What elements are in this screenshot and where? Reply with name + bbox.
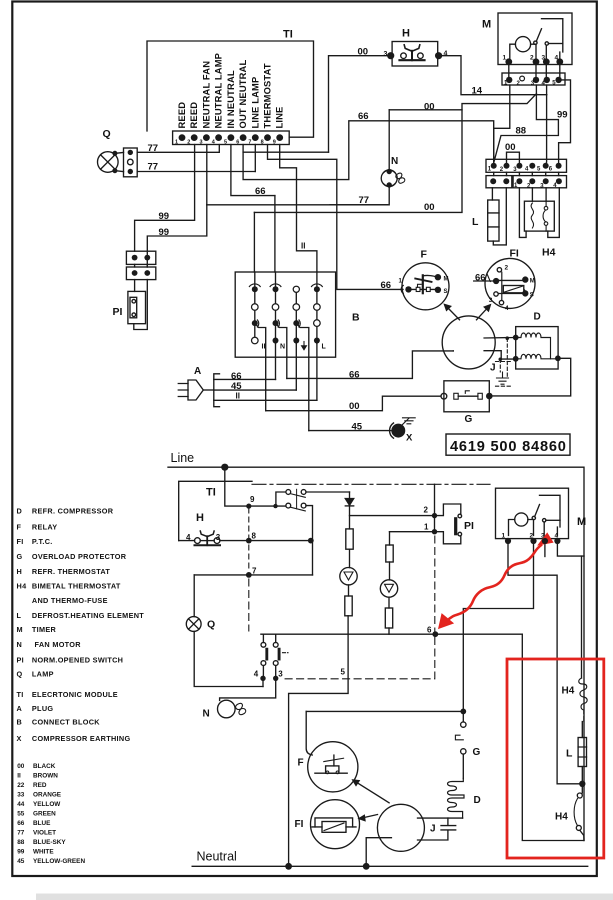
svg-text:66: 66 bbox=[17, 820, 25, 827]
svg-text:B: B bbox=[17, 718, 23, 727]
svg-text:33: 33 bbox=[17, 792, 25, 799]
svg-text:22: 22 bbox=[17, 782, 25, 789]
svg-text:N: N bbox=[17, 640, 23, 649]
svg-text:NORM.OPENED SWITCH: NORM.OPENED SWITCH bbox=[32, 656, 123, 665]
svg-text:N: N bbox=[391, 156, 398, 167]
svg-text:5: 5 bbox=[341, 667, 346, 676]
svg-text:00: 00 bbox=[349, 401, 360, 412]
svg-text:77: 77 bbox=[148, 162, 159, 173]
svg-text:N: N bbox=[203, 709, 210, 720]
svg-text:REED: REED bbox=[188, 102, 199, 129]
svg-text:Q: Q bbox=[103, 128, 111, 140]
svg-text:LINE: LINE bbox=[274, 107, 285, 129]
svg-text:66: 66 bbox=[381, 280, 392, 291]
svg-text:H: H bbox=[402, 28, 410, 40]
svg-text:BLUE-SKY: BLUE-SKY bbox=[33, 839, 66, 846]
svg-text:2: 2 bbox=[187, 140, 190, 146]
svg-text:L: L bbox=[17, 611, 22, 620]
svg-text:ORANGE: ORANGE bbox=[33, 792, 62, 799]
svg-text:M: M bbox=[17, 625, 23, 634]
svg-text:J: J bbox=[430, 824, 436, 835]
svg-text:45: 45 bbox=[17, 858, 25, 865]
svg-text:00: 00 bbox=[424, 101, 435, 112]
svg-text:D: D bbox=[534, 312, 541, 323]
svg-text:F: F bbox=[17, 522, 22, 531]
svg-text:6: 6 bbox=[427, 625, 432, 634]
svg-text:M: M bbox=[482, 19, 491, 31]
svg-text:2: 2 bbox=[424, 506, 429, 515]
svg-text:7: 7 bbox=[252, 567, 257, 576]
svg-text:LAMP: LAMP bbox=[32, 670, 54, 679]
svg-text:II: II bbox=[301, 242, 305, 251]
svg-text:M: M bbox=[577, 516, 586, 528]
svg-text:Neutral: Neutral bbox=[197, 850, 237, 864]
svg-text:Line: Line bbox=[171, 451, 195, 465]
svg-text:NEUTRAL LAMP: NEUTRAL LAMP bbox=[213, 53, 224, 129]
svg-text:G: G bbox=[17, 552, 23, 561]
svg-text:4619 500 84860: 4619 500 84860 bbox=[450, 439, 567, 455]
svg-text:THERMOSTAT: THERMOSTAT bbox=[262, 63, 273, 128]
svg-text:66: 66 bbox=[358, 111, 369, 122]
svg-text:II: II bbox=[236, 391, 240, 400]
svg-text:66: 66 bbox=[349, 369, 360, 380]
svg-text:PI: PI bbox=[17, 656, 25, 665]
svg-text:S: S bbox=[530, 292, 534, 298]
svg-text:BLUE: BLUE bbox=[33, 820, 51, 827]
svg-text:99: 99 bbox=[557, 110, 568, 121]
svg-text:H4: H4 bbox=[542, 247, 556, 259]
svg-text:REED: REED bbox=[176, 102, 187, 129]
svg-text:H: H bbox=[196, 512, 204, 524]
svg-text:FAN MOTOR: FAN MOTOR bbox=[35, 640, 82, 649]
svg-text:1: 1 bbox=[503, 54, 507, 61]
svg-text:II: II bbox=[17, 773, 21, 780]
svg-text:Q: Q bbox=[207, 619, 215, 631]
svg-text:1: 1 bbox=[424, 523, 429, 532]
svg-text:G: G bbox=[465, 414, 473, 425]
svg-text:COMPRESSOR EARTHING: COMPRESSOR EARTHING bbox=[32, 734, 131, 743]
svg-text:J: J bbox=[490, 363, 496, 374]
svg-text:BROWN: BROWN bbox=[33, 773, 58, 780]
svg-text:8: 8 bbox=[261, 140, 264, 146]
svg-text:DEFROST.HEATING ELEMENT: DEFROST.HEATING ELEMENT bbox=[32, 611, 144, 620]
svg-text:BIMETAL THERMOSTAT: BIMETAL THERMOSTAT bbox=[32, 582, 121, 591]
svg-text:NEUTRAL FAN: NEUTRAL FAN bbox=[200, 61, 211, 129]
svg-text:LINE LAMP: LINE LAMP bbox=[249, 77, 260, 129]
svg-text:X: X bbox=[406, 433, 413, 444]
svg-text:1: 1 bbox=[175, 140, 178, 146]
svg-text:G: G bbox=[473, 747, 481, 758]
svg-text:ELECRTONIC MODULE: ELECRTONIC MODULE bbox=[32, 690, 118, 699]
svg-text:4: 4 bbox=[444, 51, 448, 58]
svg-text:YELLOW: YELLOW bbox=[33, 801, 61, 808]
svg-text:PI: PI bbox=[113, 306, 123, 318]
svg-text:TI: TI bbox=[206, 487, 216, 499]
svg-text:WHITE: WHITE bbox=[33, 849, 54, 856]
svg-text:X: X bbox=[17, 734, 22, 743]
svg-text:N: N bbox=[280, 344, 285, 351]
svg-text:66: 66 bbox=[475, 272, 486, 283]
svg-text:3: 3 bbox=[216, 533, 221, 542]
svg-text:L: L bbox=[322, 344, 327, 351]
svg-text:FI: FI bbox=[17, 537, 24, 546]
svg-text:99: 99 bbox=[159, 227, 170, 238]
svg-text:2: 2 bbox=[530, 532, 534, 539]
svg-text:4: 4 bbox=[254, 669, 259, 678]
svg-text:PLUG: PLUG bbox=[32, 704, 53, 713]
svg-text:M: M bbox=[530, 279, 535, 285]
svg-text:TIMER: TIMER bbox=[32, 625, 57, 634]
svg-text:TI: TI bbox=[17, 690, 24, 699]
svg-text:3: 3 bbox=[489, 297, 493, 304]
svg-text:REFR. THERMOSTAT: REFR. THERMOSTAT bbox=[32, 567, 111, 576]
svg-text:77: 77 bbox=[148, 143, 159, 154]
svg-text:3: 3 bbox=[278, 669, 283, 678]
svg-text:8: 8 bbox=[252, 532, 257, 541]
svg-text:M: M bbox=[444, 276, 449, 282]
svg-text:6: 6 bbox=[236, 140, 239, 146]
svg-text:P.T.C.: P.T.C. bbox=[32, 537, 53, 546]
svg-text:00: 00 bbox=[424, 202, 435, 213]
svg-text:H4: H4 bbox=[17, 582, 28, 591]
svg-text:L: L bbox=[472, 216, 479, 228]
svg-text:99: 99 bbox=[159, 211, 170, 222]
svg-text:5: 5 bbox=[224, 140, 227, 146]
svg-text:RELAY: RELAY bbox=[32, 522, 58, 531]
svg-text:14: 14 bbox=[472, 86, 483, 97]
svg-text:45: 45 bbox=[352, 422, 363, 433]
svg-text:2: 2 bbox=[505, 265, 509, 272]
svg-text:A: A bbox=[17, 704, 23, 713]
svg-text:77: 77 bbox=[359, 195, 370, 206]
svg-text:3: 3 bbox=[200, 140, 203, 146]
svg-text:OVERLOAD PROTECTOR: OVERLOAD PROTECTOR bbox=[32, 552, 127, 561]
svg-text:FI: FI bbox=[510, 248, 519, 260]
svg-text:F: F bbox=[298, 758, 304, 769]
svg-text:B: B bbox=[352, 312, 360, 324]
svg-text:FI: FI bbox=[295, 819, 304, 830]
svg-text:2: 2 bbox=[530, 54, 534, 61]
svg-text:PI: PI bbox=[464, 520, 474, 532]
svg-text:77: 77 bbox=[17, 830, 25, 837]
svg-text:88: 88 bbox=[17, 839, 25, 846]
svg-text:00: 00 bbox=[17, 763, 25, 770]
svg-text:4: 4 bbox=[555, 54, 559, 61]
svg-text:4: 4 bbox=[505, 305, 509, 312]
svg-text:TI: TI bbox=[283, 29, 293, 41]
svg-text:L: L bbox=[566, 748, 573, 760]
svg-text:4: 4 bbox=[186, 533, 191, 542]
svg-text:AND THERMO-FUSE: AND THERMO-FUSE bbox=[32, 596, 108, 605]
svg-text:00: 00 bbox=[358, 47, 369, 58]
svg-text:3: 3 bbox=[384, 51, 388, 58]
svg-text:VIOLET: VIOLET bbox=[33, 830, 56, 837]
svg-text:4: 4 bbox=[555, 532, 559, 539]
svg-text:D: D bbox=[17, 507, 23, 516]
svg-text:OUT NEUTRAL: OUT NEUTRAL bbox=[237, 60, 248, 129]
svg-text:IN NEUTRAL: IN NEUTRAL bbox=[225, 70, 236, 128]
svg-text:D: D bbox=[474, 795, 481, 806]
svg-text:66: 66 bbox=[255, 186, 266, 197]
svg-text:REFR. COMPRESSOR: REFR. COMPRESSOR bbox=[32, 507, 114, 516]
svg-text:S: S bbox=[444, 289, 448, 295]
svg-text:RED: RED bbox=[33, 782, 47, 789]
svg-text:99: 99 bbox=[17, 849, 25, 856]
svg-text:3: 3 bbox=[542, 54, 546, 61]
svg-text:F: F bbox=[421, 249, 428, 261]
svg-text:Q: Q bbox=[17, 670, 23, 679]
svg-text:55: 55 bbox=[17, 811, 25, 818]
svg-text:II: II bbox=[262, 344, 266, 351]
svg-text:H4: H4 bbox=[555, 812, 568, 823]
svg-text:A: A bbox=[194, 366, 201, 377]
svg-text:45: 45 bbox=[231, 381, 242, 392]
svg-text:CONNECT BLOCK: CONNECT BLOCK bbox=[32, 718, 100, 727]
svg-text:9: 9 bbox=[250, 495, 255, 504]
svg-text:00: 00 bbox=[505, 142, 516, 153]
svg-text:1: 1 bbox=[502, 532, 506, 539]
svg-text:H4: H4 bbox=[562, 686, 575, 697]
svg-text:GREEN: GREEN bbox=[33, 811, 56, 818]
svg-text:88: 88 bbox=[516, 125, 527, 136]
svg-text:BLACK: BLACK bbox=[33, 763, 56, 770]
svg-text:YELLOW-GREEN: YELLOW-GREEN bbox=[33, 858, 85, 865]
svg-text:9: 9 bbox=[273, 140, 276, 146]
svg-text:H: H bbox=[17, 567, 23, 576]
svg-text:7: 7 bbox=[248, 140, 251, 146]
svg-text:3: 3 bbox=[541, 532, 545, 539]
svg-text:44: 44 bbox=[17, 801, 25, 808]
